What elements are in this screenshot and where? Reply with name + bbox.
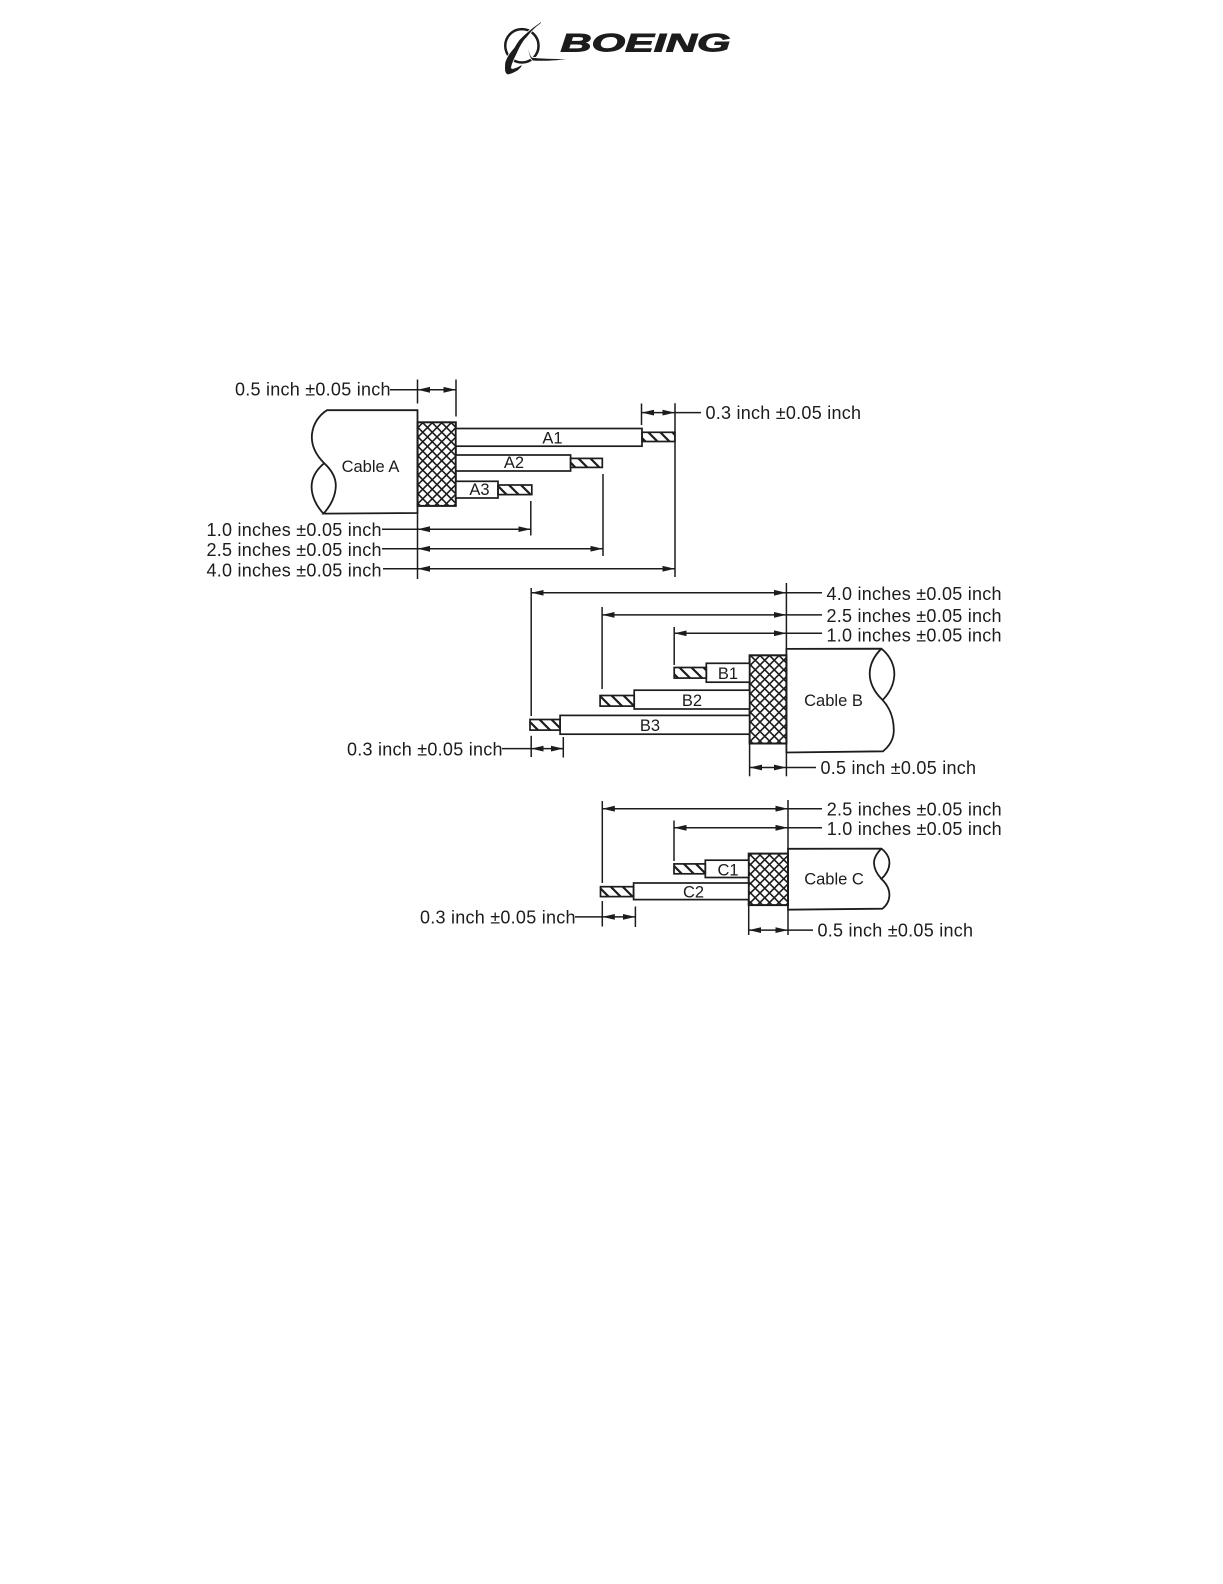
wire A1: [456, 429, 642, 447]
braid B (crosshatch): [750, 655, 787, 743]
extension line x=674 (C): [673, 821, 675, 862]
extension line x=602.3 (C): [601, 801, 603, 883]
tick x=635.4 (C): [634, 907, 636, 928]
dim arrows 0.3 (B): [531, 748, 563, 750]
leader 1.0 (A): [382, 528, 418, 530]
cable B break lens arc: [870, 649, 883, 700]
svg-text:B3: B3: [640, 717, 660, 735]
wire B3 conductor tip: [530, 720, 560, 731]
svg-text:0.5 inch ±0.05 inch: 0.5 inch ±0.05 inch: [235, 380, 391, 400]
svg-text:A1: A1: [542, 429, 562, 447]
svg-text:4.0 inches ±0.05 inch: 4.0 inches ±0.05 inch: [827, 584, 1002, 604]
extension line x=456 (A): [455, 380, 457, 417]
extension line x=786.4 top (B): [785, 583, 787, 649]
dim arrows 0.5 (C): [749, 929, 788, 931]
svg-text:2.5 inches ±0.05 inch: 2.5 inches ±0.05 inch: [827, 800, 1002, 820]
extension line x=603 (A): [602, 474, 604, 556]
dim arrows 4.0 (B): [531, 592, 786, 594]
Boeing logo symbol: [505, 22, 567, 74]
tick x=788 bottom (C): [787, 910, 789, 935]
cable B body: [786, 649, 894, 753]
wire A2: [456, 455, 571, 471]
extension line x=417.5 (A): [417, 380, 419, 404]
cable A body: [312, 410, 418, 513]
leader 0.3 (B): [502, 748, 531, 750]
leader 2.5 (B): [786, 614, 822, 616]
wire B2: [634, 690, 749, 709]
dim arrows 0.5 (B): [750, 767, 787, 769]
svg-text:0.3 inch ±0.05 inch: 0.3 inch ±0.05 inch: [347, 739, 503, 759]
wire A1 conductor tip: [642, 432, 675, 441]
wire C2: [634, 883, 749, 900]
svg-text:C1: C1: [717, 862, 738, 880]
dim arrows 4.0 (A): [418, 568, 675, 570]
dim arrows 1.0 (B): [674, 632, 786, 634]
leader 0.3 (C): [575, 916, 602, 918]
svg-text:4.0 inches ±0.05 inch: 4.0 inches ±0.05 inch: [207, 560, 382, 580]
svg-text:Cable C: Cable C: [804, 871, 864, 889]
wire A2 conductor tip: [571, 458, 603, 467]
wire C1: [705, 860, 748, 877]
leader 0.5 (C): [788, 929, 813, 931]
wire A3 conductor tip: [498, 485, 532, 495]
leader 0.3 (A): [675, 412, 701, 414]
dim arrows 0.3 (C): [602, 916, 635, 918]
svg-text:Cable B: Cable B: [804, 692, 863, 710]
dim arrows 0.5 (A): [418, 389, 457, 391]
wire B3: [560, 715, 750, 734]
wire B2 conductor tip: [600, 696, 634, 707]
dim arrows 1.0 (A): [418, 528, 531, 530]
svg-text:1.0 inches ±0.05 inch: 1.0 inches ±0.05 inch: [827, 626, 1002, 646]
leader 2.5 (A): [382, 548, 418, 550]
dim arrows 2.5 (A): [418, 548, 603, 550]
dim 0.3 inch (A) ticks: [641, 404, 643, 426]
svg-text:0.5 inch ±0.05 inch: 0.5 inch ±0.05 inch: [821, 758, 977, 778]
svg-text:1.0 inches ±0.05 inch: 1.0 inches ±0.05 inch: [207, 520, 382, 540]
dim arrows 1.0 (C): [674, 827, 788, 829]
svg-text:2.5 inches ±0.05 inch: 2.5 inches ±0.05 inch: [827, 606, 1002, 626]
leader 1.0 (C): [788, 827, 822, 829]
svg-text:A2: A2: [504, 454, 524, 472]
leader 2.5 (C): [788, 808, 822, 810]
svg-text:0.5 inch ±0.05 inch: 0.5 inch ±0.05 inch: [818, 921, 974, 941]
svg-text:A3: A3: [469, 481, 489, 499]
dim arrows 0.3 (A): [642, 412, 676, 414]
dim arrows 2.5 (C): [602, 808, 788, 810]
braid C (crosshatch): [749, 854, 788, 906]
svg-text:C2: C2: [683, 884, 704, 902]
leader 1.0 (B): [786, 632, 822, 634]
leader 0.5 (B): [786, 767, 816, 769]
wire A3: [456, 481, 498, 498]
svg-text:BOEING: BOEING: [561, 29, 731, 57]
svg-text:Cable A: Cable A: [342, 458, 400, 476]
leader 0.5 (A): [390, 389, 418, 391]
tick x=749.6 bottom (B): [749, 744, 751, 777]
cable C break lens arc: [874, 849, 881, 879]
extension line x=530.8 (A): [530, 501, 532, 536]
leader 4.0 (B): [786, 592, 822, 594]
svg-text:0.3 inch ±0.05 inch: 0.3 inch ±0.05 inch: [420, 907, 576, 927]
svg-text:B1: B1: [718, 665, 738, 683]
extension line x=531.2 (B): [530, 588, 532, 716]
svg-text:B2: B2: [682, 692, 702, 710]
wire B1 conductor tip: [674, 668, 706, 679]
svg-text:1.0 inches ±0.05 inch: 1.0 inches ±0.05 inch: [827, 819, 1002, 839]
braid A (crosshatch): [418, 422, 456, 506]
svg-text:0.3 inch ±0.05 inch: 0.3 inch ±0.05 inch: [706, 403, 862, 423]
extension line x=674.2 (B): [673, 627, 675, 665]
leader 4.0 (A): [383, 568, 418, 570]
extension line x=602.1 (B): [601, 607, 603, 689]
cable C body: [788, 849, 889, 910]
dim arrows 2.5 (B): [602, 614, 786, 616]
tick x=563.3 (B): [562, 737, 564, 758]
tick x=748.7 bottom (C): [748, 905, 750, 935]
cable A break lens arc: [312, 463, 325, 513]
tick x=786.4 bottom (B): [785, 753, 787, 777]
wire B1: [706, 663, 749, 682]
wire C1 conductor tip: [674, 864, 705, 874]
extension line x=788 top (C): [787, 800, 789, 849]
wire C2 conductor tip: [601, 887, 634, 897]
svg-text:2.5 inches ±0.05 inch: 2.5 inches ±0.05 inch: [207, 540, 382, 560]
